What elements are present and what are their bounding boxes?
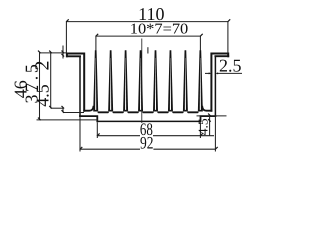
svg-text:2: 2 xyxy=(32,61,54,71)
svg-text:4.5: 4.5 xyxy=(196,118,211,135)
svg-text:4.5: 4.5 xyxy=(33,84,53,107)
svg-text:10*7=70: 10*7=70 xyxy=(130,21,189,37)
svg-text:2.5: 2.5 xyxy=(219,55,242,75)
svg-text:92: 92 xyxy=(140,133,154,153)
